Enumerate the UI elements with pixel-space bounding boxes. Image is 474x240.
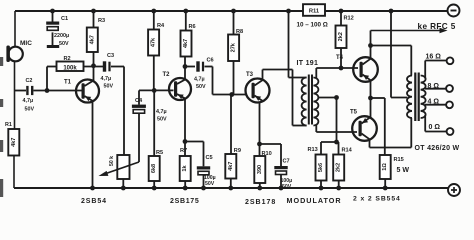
svg-text:4 Ω: 4 Ω — [428, 98, 440, 105]
svg-text:T5: T5 — [350, 110, 358, 116]
svg-text:R7: R7 — [180, 148, 187, 154]
svg-text:4,7µ: 4,7µ — [156, 109, 167, 115]
svg-text:R11: R11 — [309, 9, 320, 15]
svg-text:R12: R12 — [344, 16, 354, 22]
svg-text:6k8: 6k8 — [151, 164, 157, 173]
svg-text:2k2: 2k2 — [338, 32, 344, 41]
svg-text:5 W: 5 W — [397, 167, 410, 174]
svg-text:OT 426/20 W: OT 426/20 W — [415, 145, 460, 152]
svg-text:R4: R4 — [157, 23, 165, 29]
svg-text:2SB54: 2SB54 — [81, 198, 107, 205]
svg-text:IT 191: IT 191 — [297, 60, 319, 67]
svg-text:2 x 2 SB554: 2 x 2 SB554 — [353, 196, 401, 203]
svg-text:2SB178: 2SB178 — [245, 199, 276, 206]
svg-text:50V: 50V — [104, 84, 114, 90]
svg-text:50V: 50V — [196, 84, 206, 90]
svg-text:R13: R13 — [308, 147, 318, 153]
svg-text:R15: R15 — [394, 157, 404, 163]
svg-text:2200µ: 2200µ — [54, 33, 69, 39]
svg-text:1k: 1k — [182, 165, 188, 172]
svg-text:27k: 27k — [231, 42, 237, 52]
svg-text:T1: T1 — [64, 80, 72, 86]
svg-text:4k7: 4k7 — [183, 39, 189, 48]
svg-text:100k: 100k — [63, 65, 77, 71]
svg-text:T2: T2 — [163, 72, 171, 78]
svg-text:0 Ω: 0 Ω — [429, 124, 441, 131]
svg-text:50V: 50V — [282, 184, 292, 190]
svg-text:4k7: 4k7 — [89, 35, 95, 44]
svg-text:MIC: MIC — [20, 40, 32, 47]
svg-text:4k7: 4k7 — [11, 138, 17, 147]
svg-text:5k6: 5k6 — [318, 163, 324, 172]
svg-text:4,7µ: 4,7µ — [194, 77, 205, 83]
svg-text:4,7µ: 4,7µ — [101, 76, 112, 82]
svg-text:1Ω: 1Ω — [382, 163, 388, 171]
svg-text:T3: T3 — [246, 72, 254, 78]
svg-text:C2: C2 — [26, 78, 33, 84]
svg-text:50 k: 50 k — [109, 156, 115, 166]
svg-text:4k7: 4k7 — [228, 162, 234, 171]
svg-text:390: 390 — [257, 165, 263, 174]
svg-text:50V: 50V — [59, 41, 69, 47]
svg-text:ke RFC 5: ke RFC 5 — [418, 22, 456, 31]
svg-text:50V: 50V — [25, 107, 35, 113]
svg-text:2SB175: 2SB175 — [170, 198, 200, 205]
svg-text:8 Ω: 8 Ω — [428, 83, 440, 90]
svg-text:4,7µ: 4,7µ — [23, 98, 34, 104]
svg-text:2k2: 2k2 — [336, 163, 342, 172]
svg-text:R3: R3 — [98, 18, 105, 24]
svg-text:C3: C3 — [107, 53, 114, 59]
svg-text:16 Ω: 16 Ω — [426, 54, 442, 61]
svg-text:C7: C7 — [283, 159, 290, 165]
svg-text:50V: 50V — [205, 181, 215, 187]
svg-text:10 – 100 Ω: 10 – 100 Ω — [297, 21, 328, 28]
svg-text:C6: C6 — [207, 58, 214, 64]
svg-text:T4: T4 — [336, 55, 344, 61]
svg-text:MODULATOR: MODULATOR — [287, 196, 342, 205]
svg-text:C1: C1 — [61, 16, 68, 22]
svg-text:C4: C4 — [135, 98, 143, 104]
svg-text:R1: R1 — [5, 122, 12, 128]
svg-text:C5: C5 — [206, 155, 213, 161]
svg-text:47k: 47k — [151, 37, 157, 47]
svg-text:50V: 50V — [157, 117, 167, 123]
svg-text:R14: R14 — [342, 148, 353, 154]
svg-text:R6: R6 — [189, 24, 196, 30]
